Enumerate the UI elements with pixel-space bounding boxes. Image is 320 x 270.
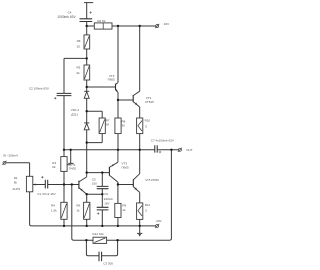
svg-text:R2 82: R2 82 — [97, 19, 105, 23]
svg-text:C4: C4 — [68, 11, 72, 15]
svg-text:R6: R6 — [77, 39, 81, 43]
svg-text:C6: C6 — [104, 192, 108, 196]
svg-text:6k: 6k — [14, 181, 18, 185]
svg-text:C2 100mk 63V: C2 100mk 63V — [29, 86, 49, 90]
svg-text:П605: П605 — [122, 165, 129, 169]
svg-text:П402: П402 — [69, 167, 76, 171]
svg-text:6k: 6k — [52, 165, 56, 169]
svg-text:40V: 40V — [164, 22, 169, 26]
svg-text:R10: R10 — [145, 119, 151, 123]
svg-text:R1: R1 — [14, 176, 18, 180]
svg-text:C7 4x100mk 63V: C7 4x100mk 63V — [151, 138, 174, 142]
svg-text:20: 20 — [77, 45, 81, 49]
svg-text:VT5 КТ819: VT5 КТ819 — [145, 178, 159, 182]
svg-text:16V: 16V — [104, 201, 109, 205]
svg-text:1.5k: 1.5k — [51, 209, 57, 213]
svg-text:R6: R6 — [76, 204, 80, 208]
svg-text:ALPS: ALPS — [13, 187, 21, 191]
svg-text:R9: R9 — [122, 204, 126, 208]
svg-text:OUT: OUT — [186, 148, 193, 152]
svg-text:Д311: Д311 — [71, 112, 78, 116]
svg-text:100: 100 — [92, 182, 97, 186]
svg-text:1000mk 63V: 1000mk 63V — [57, 15, 76, 19]
svg-text:C1 47mk 16V: C1 47mk 16V — [37, 192, 55, 196]
svg-text:R11: R11 — [145, 203, 151, 207]
svg-text:1k: 1k — [122, 208, 126, 212]
svg-text:30: 30 — [122, 124, 126, 128]
svg-text:C3 300: C3 300 — [103, 261, 113, 265]
svg-text:R5: R5 — [77, 66, 81, 70]
svg-text:VD1,2: VD1,2 — [71, 108, 80, 112]
svg-text:1k: 1k — [76, 209, 80, 213]
svg-text:-40V: -40V — [155, 219, 161, 223]
svg-text:R4: R4 — [51, 204, 55, 208]
svg-text:П605: П605 — [108, 78, 115, 82]
svg-text:220mk: 220mk — [104, 197, 114, 201]
svg-text:2k: 2k — [76, 71, 80, 75]
svg-text:КТ815: КТ815 — [145, 100, 154, 104]
svg-text:39: 39 — [106, 123, 110, 127]
svg-text:R12 10k: R12 10k — [93, 232, 105, 236]
svg-text:IN ~250mV: IN ~250mV — [3, 153, 18, 157]
